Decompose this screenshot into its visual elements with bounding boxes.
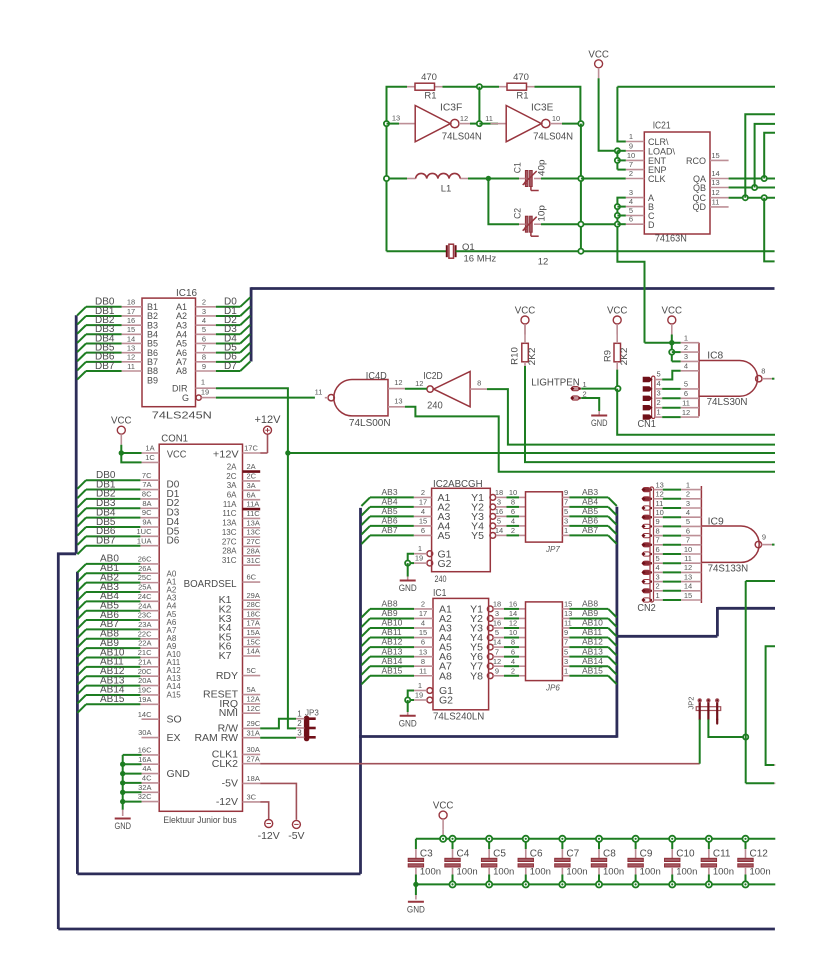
svg-text:13C: 13C [222,528,237,537]
svg-text:R10: R10 [510,347,520,365]
svg-text:6: 6 [202,334,206,343]
wire QB row [729,187,775,189]
svg-text:74LS04N: 74LS04N [533,132,573,143]
svg-text:100n: 100n [530,867,551,878]
svg-text:13: 13 [684,572,692,581]
svg-text:17: 17 [419,498,427,507]
wire CN2 pin 11 to IC9 [654,507,663,509]
svg-text:4C: 4C [142,774,152,783]
wire VCC to IC8 pin1 [671,335,673,362]
trimmer capacitor C2 [512,205,547,236]
power VCC symbol [613,316,621,324]
svg-text:C2: C2 [512,208,523,219]
wire AB13 to CON1 [86,685,140,687]
svg-text:13: 13 [392,114,400,123]
IC2 pin A5 [414,534,432,536]
svg-text:CN1: CN1 [638,419,657,430]
svg-text:R1: R1 [424,91,436,102]
svg-text:12: 12 [538,257,549,268]
svg-text:17: 17 [127,307,135,316]
svg-text:100n: 100n [640,867,661,878]
wire DB0 to CON1 [86,479,140,481]
resistor R1 (second 470) [499,86,507,88]
svg-text:3: 3 [564,517,568,526]
wire -12V to symbol [260,802,269,819]
svg-text:23C: 23C [138,611,152,620]
svg-text:+12V: +12V [255,414,282,426]
svg-text:7: 7 [656,536,660,545]
wire IC3E out [562,123,581,125]
svg-text:16A: 16A [138,755,151,764]
svg-text:20A: 20A [138,676,151,685]
svg-text:GND: GND [407,904,425,914]
svg-text:12A: 12A [247,695,260,704]
svg-text:11A: 11A [223,500,237,509]
svg-text:2: 2 [684,343,688,352]
svg-text:10: 10 [509,628,517,637]
wire AB3 to CON1 [86,591,140,593]
svg-text:8: 8 [202,353,206,362]
wire D7 to data bus [216,370,240,372]
CON1 -5V pin 18A [243,782,261,784]
svg-text:1UC: 1UC [136,527,152,536]
wire AB9 to CON1 [86,647,140,649]
svg-text:6: 6 [421,638,425,647]
svg-text:26C: 26C [138,555,152,564]
svg-text:5: 5 [495,628,499,637]
svg-text:100n: 100n [603,867,624,878]
wire AB14 to CON1 [86,694,140,696]
ground [400,715,416,717]
CON1 right unused pins 2A-31C [243,470,261,473]
svg-text:AB13: AB13 [382,646,403,656]
svg-text:9: 9 [762,533,766,542]
svg-text:AB15: AB15 [582,665,603,675]
wire AB14 into IC1 [370,665,414,667]
JP6 right pin AB9 [562,617,569,619]
svg-text:25A: 25A [138,583,151,592]
wire 31A to JP3 pin3 [260,737,296,739]
svg-text:10: 10 [684,545,692,554]
IC1 pin A2 [414,617,433,619]
svg-text:JP6: JP6 [545,684,560,693]
svg-text:GND: GND [399,583,417,593]
svg-text:EX: EX [167,732,181,744]
svg-text:AB5: AB5 [582,506,598,516]
svg-text:12: 12 [394,378,402,387]
svg-text:7: 7 [686,536,690,545]
CON1 right BOARDSEL pin 6C [243,581,261,583]
svg-text:5C: 5C [247,666,257,675]
wire G to IC4D input [216,397,315,399]
svg-text:4: 4 [511,657,515,666]
inverter IC3F 74LS04N [399,123,415,125]
JP7 right pin AB4 [562,506,569,508]
svg-text:11: 11 [127,362,135,371]
svg-text:15: 15 [419,517,427,526]
wire LOAD to ENT/ENP chain [616,151,618,170]
JP6 right pin AB11 [562,637,569,639]
junction ring crystal row [578,249,583,254]
IC21 left pins [626,141,645,143]
svg-text:17: 17 [419,609,427,618]
svg-text:4: 4 [656,563,660,572]
svg-text:14: 14 [684,582,692,591]
wire VCC to LOAD row [599,78,618,151]
junction ring lightpen node [615,386,620,391]
svg-text:4: 4 [657,379,661,388]
svg-text:IC2D: IC2D [423,371,443,382]
svg-text:8C: 8C [142,490,152,499]
svg-text:100n: 100n [420,867,441,878]
svg-text:29C: 29C [247,719,261,728]
svg-text:C3: C3 [420,849,433,860]
svg-text:7: 7 [564,498,568,507]
wire IC8 pin3 [672,360,681,362]
junction ring CLK node [578,176,583,181]
svg-text:4: 4 [629,197,633,206]
svg-text:11: 11 [485,114,493,123]
svg-text:11: 11 [419,666,427,675]
svg-text:2: 2 [656,582,660,591]
svg-text:11: 11 [564,619,572,628]
svg-text:1: 1 [201,378,205,387]
wire CN1 pin5 to IC8 pin4 (jog) [655,379,662,381]
svg-text:6: 6 [511,647,515,656]
CON1 -12V pin 3C [243,801,261,803]
buffer IC1 74LS240LN box [433,598,489,709]
wire CN2 pin 7 to IC9 [654,544,663,546]
junction ring C2 row at vertical [578,222,583,227]
svg-text:AB3: AB3 [382,487,398,497]
bus: inner bottom horizontal [77,873,360,876]
wire DB2 to CON1 [86,498,140,500]
wire IC2D out to long line [487,389,775,445]
svg-text:18: 18 [493,600,501,609]
ground [115,818,131,820]
connector CN1 [652,376,655,418]
bus: data bus horizontal top [251,287,774,290]
svg-text:A5: A5 [438,530,451,542]
svg-text:16C: 16C [138,746,152,755]
svg-text:1: 1 [418,681,422,690]
svg-text:GND: GND [591,418,608,428]
svg-text:AB12: AB12 [582,637,603,647]
IC1 pin A6 [414,656,433,658]
svg-text:100n: 100n [713,867,734,878]
wire DB7 to IC16 [86,370,122,372]
svg-text:22C: 22C [138,629,152,638]
svg-text:4: 4 [686,508,690,517]
svg-text:100n: 100n [676,867,697,878]
svg-text:11: 11 [682,399,690,408]
inverter IC3E 74LS04N [491,123,507,125]
wire DB2 to IC16 [86,324,122,326]
svg-text:R1: R1 [516,91,528,102]
wire QC row [729,197,775,199]
svg-text:6: 6 [629,215,633,224]
svg-text:QB: QB [693,183,706,193]
wire AB2 to CON1 [86,582,140,584]
svg-text:9: 9 [564,628,568,637]
wire gnd chain vertical [122,755,124,810]
svg-text:C11: C11 [713,849,731,860]
svg-text:6C: 6C [247,573,257,582]
svg-text:100n: 100n [457,867,478,878]
resistor R10 2K2 [522,343,529,362]
wire ABCD chain [617,198,644,343]
svg-text:3: 3 [297,729,302,738]
wire AB11 to CON1 [86,666,140,668]
svg-text:27A: 27A [247,754,260,763]
svg-text:VCC: VCC [433,800,454,812]
bus: horizontal to cut edge [717,607,775,610]
junction dot IC8 pin1 [669,340,674,345]
svg-text:AB8: AB8 [382,599,398,609]
svg-text:1: 1 [686,480,690,489]
IC1 pin Y2 bubble [487,616,493,622]
IC16 left pins DB0-DB7 [122,306,142,308]
svg-text:AB4: AB4 [382,497,398,507]
svg-text:2: 2 [629,169,633,178]
svg-text:13: 13 [656,480,664,489]
wire CN2 pin 3 to IC9 [654,581,663,583]
wire branch down to C2 row [488,179,519,225]
jumper block JP7 [526,492,563,542]
junction ring L1 row left [384,176,389,181]
svg-text:LOAD\: LOAD\ [648,146,676,156]
svg-text:240: 240 [427,401,443,412]
wire LOAD stub [617,150,625,152]
svg-text:CN2: CN2 [637,603,656,614]
svg-text:74LS00N: 74LS00N [349,418,391,429]
JP6 right pin AB13 [562,656,569,658]
svg-text:74LS30N: 74LS30N [707,397,748,408]
svg-text:18C: 18C [247,609,261,618]
wire QA row [729,178,775,180]
NAND gate IC8 74LS30N [698,343,700,417]
capacitor C10 100n [671,839,673,849]
wire CN1 pin1 to IC8 pin12 [655,416,662,418]
svg-text:1C: 1C [145,453,155,462]
junction ring B [615,204,620,209]
wire AB5 to CON1 [86,610,140,612]
wire DB6 to IC16 [86,361,122,363]
svg-text:8: 8 [511,638,515,647]
capacitor C3 100n [415,839,417,849]
svg-text:2: 2 [511,666,515,675]
IC2 pin Y5 bubble [490,533,496,539]
svg-text:R9: R9 [603,350,613,362]
svg-text:IC3F: IC3F [440,102,462,113]
svg-text:15: 15 [711,151,719,160]
svg-text:1A: 1A [145,443,154,452]
svg-text:13: 13 [127,343,135,352]
IC2 pin A1 [414,496,432,498]
svg-text:9C: 9C [142,508,152,517]
svg-text:A8: A8 [439,670,452,682]
svg-text:28A: 28A [222,547,237,556]
resistor R1 (first 470) [407,86,415,88]
svg-text:9: 9 [564,488,568,497]
svg-text:8: 8 [421,657,425,666]
wire DB4 to CON1 [86,517,140,519]
wire to GND [415,884,417,895]
svg-text:16: 16 [493,619,501,628]
svg-text:10p: 10p [536,205,547,222]
wire QB to top right [755,124,775,188]
svg-text:4: 4 [684,362,688,371]
wire DB5 to IC16 [86,352,122,354]
IC1 pin A1 [414,608,433,610]
wire AB13 into IC1 [370,656,414,658]
svg-text:31A: 31A [247,728,260,737]
svg-text:8A: 8A [142,499,151,508]
svg-text:5: 5 [497,517,501,526]
svg-text:2: 2 [421,488,425,497]
bus: bottom outer horizontal [58,928,775,931]
inductor L1 [407,178,416,180]
wire CN2 pin 6 to IC9 [654,553,663,555]
svg-text:15A: 15A [247,628,260,637]
svg-text:1: 1 [418,544,422,553]
wire DIR to vertical [216,388,288,453]
wire CN2 pin 8 to IC9 [654,535,663,537]
IC16 right pins D0-D7 [196,306,216,308]
svg-text:5: 5 [686,517,690,526]
wire CN2 pin 10 to IC9 [654,516,663,518]
svg-text:2A: 2A [227,462,237,471]
junction ring QA [762,176,767,181]
svg-text:AB13: AB13 [582,646,603,656]
power VCC symbol [521,316,529,324]
svg-text:15C: 15C [247,637,261,646]
wire L1 to C1 node [468,178,519,180]
CON1 left pin 1A/1C [142,452,160,454]
wire crystal to right [456,250,775,252]
svg-text:2A: 2A [247,462,256,471]
wire between R1 and node [443,86,500,88]
svg-text:2: 2 [202,298,206,307]
wire AB12 to CON1 [86,675,140,677]
svg-text:13: 13 [711,178,719,187]
svg-text:29A: 29A [247,591,260,600]
junction ring QB [752,185,757,190]
wire right loop from cut edge [766,646,775,765]
svg-text:AB7: AB7 [582,525,598,535]
svg-text:27C: 27C [247,537,261,546]
svg-text:3A: 3A [227,481,237,490]
svg-text:AB4: AB4 [582,497,598,507]
svg-text:VCC: VCC [167,448,187,460]
svg-text:-12V: -12V [258,830,280,842]
svg-text:IC21: IC21 [653,120,671,131]
svg-text:3: 3 [564,657,568,666]
wire CLR net from top [617,87,625,142]
wire AB9 into IC1 [370,617,414,619]
svg-text:3: 3 [629,188,633,197]
IC2 pin Y2 bubble [490,504,496,510]
svg-text:Elektuur Junior bus: Elektuur Junior bus [163,815,237,825]
svg-text:A15: A15 [167,690,182,699]
wire ring to IC3F pin13 [387,123,400,125]
wire CN1 pin3 to IC8 pin6 [655,397,662,399]
CON1 right pin 17C and +12V symbol [243,452,261,454]
svg-text:11: 11 [684,554,692,563]
svg-text:7: 7 [629,160,633,169]
svg-text:CLK2: CLK2 [212,758,238,770]
svg-text:CLK: CLK [648,174,666,184]
svg-text:9A: 9A [142,518,151,527]
svg-text:2C: 2C [247,472,257,481]
svg-text:AB10: AB10 [582,618,603,628]
svg-text:14: 14 [493,638,501,647]
svg-text:VCC: VCC [662,305,683,317]
junction ring QC right [762,195,767,200]
svg-text:4: 4 [421,507,425,516]
wire ENT stub [617,159,625,161]
power VCC symbol [439,811,447,819]
svg-text:AB15: AB15 [382,665,403,675]
svg-text:1UA: 1UA [137,536,152,545]
IC1 pin A4 [414,637,433,639]
wire AB4 into IC2 [370,506,414,508]
bus: left vertical (DB side) [75,315,78,554]
wire DB3 to CON1 [86,507,140,509]
svg-text:+12V: +12V [213,448,239,460]
wire AB6 to CON1 [86,619,140,621]
svg-text:16: 16 [127,316,135,325]
svg-text:3: 3 [497,498,501,507]
svg-text:8: 8 [477,379,481,388]
power VCC symbol [595,60,603,68]
svg-text:3: 3 [684,352,688,361]
svg-text:13: 13 [564,609,572,618]
svg-text:15: 15 [419,628,427,637]
svg-text:6: 6 [421,526,425,535]
svg-text:VCC: VCC [515,305,536,317]
svg-text:DB7: DB7 [95,361,115,372]
svg-text:19A: 19A [138,695,151,704]
svg-text:11: 11 [315,387,323,396]
svg-text:12: 12 [127,353,135,362]
svg-text:20C: 20C [138,667,152,676]
svg-text:74163N: 74163N [655,233,687,244]
svg-text:10: 10 [656,508,664,517]
svg-text:11A: 11A [247,500,260,509]
wire from R1b to IC3E output node [535,87,581,124]
CON1 SO pin 14C [142,718,160,720]
wire IC3F out to node [470,123,479,125]
svg-text:7: 7 [202,343,206,352]
jumper block JP6 [526,602,563,681]
svg-text:11C: 11C [222,509,236,518]
svg-text:DB7: DB7 [96,536,116,547]
wire DIR vertical to JP3 [288,453,296,728]
capacitor C9 100n [635,839,637,849]
wire ENP stub [617,169,625,171]
wire AB8 to CON1 [86,638,140,640]
IC1 pin Y3 bubble [487,625,493,631]
wire D6 to data bus [216,361,240,363]
svg-text:C8: C8 [603,849,616,860]
svg-text:AB6: AB6 [382,516,398,526]
svg-text:7: 7 [564,638,568,647]
wire D1 to data bus [216,315,240,317]
wire D4 to data bus [216,342,240,344]
buffer IC2ABCGH 240 box [432,488,491,571]
IC1 pin A3 [414,627,433,629]
